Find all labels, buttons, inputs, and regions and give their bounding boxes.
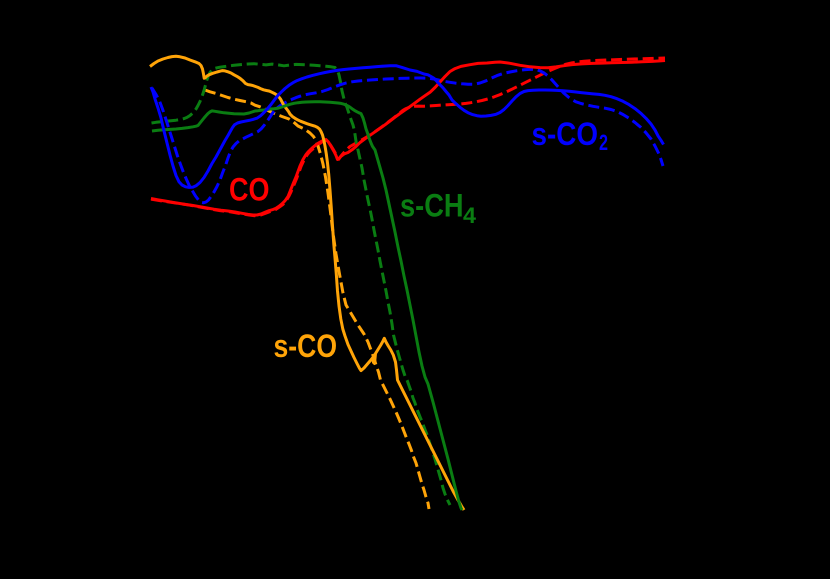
svg-text:4: 4 — [463, 203, 477, 228]
svg-text:s-CH: s-CH — [400, 188, 464, 224]
green solid curve (s-CH4 measured) — [152, 102, 462, 510]
svg-text:CO: CO — [229, 172, 270, 208]
orange solid curve (s-CO measured) — [150, 56, 464, 510]
svg-text:s-CO: s-CO — [532, 116, 599, 152]
svg-text:2: 2 — [599, 130, 608, 155]
red dashed curve (CO simulated) — [151, 58, 665, 216]
blue dashed curve (s-CO2 simulated) — [152, 69, 663, 203]
orange dashed curve (s-CO simulated) — [205, 90, 429, 509]
blue solid curve (s-CO2 measured) — [151, 66, 664, 188]
svg-text:s-CO: s-CO — [274, 328, 338, 364]
green dashed curve (s-CH4 simulated) — [152, 64, 451, 505]
red solid curve (CO measured) — [151, 61, 665, 216]
